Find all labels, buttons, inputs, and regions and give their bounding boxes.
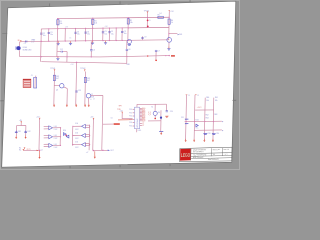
svg-text:Rev 1.0: Rev 1.0 [224, 149, 229, 151]
svg-text:C6: C6 [93, 49, 95, 51]
svg-text:R21: R21 [56, 76, 59, 78]
svg-text:C1: C1 [24, 43, 26, 45]
svg-text:C34: C34 [216, 133, 219, 135]
svg-text:BLINK LED: BLINK LED [23, 49, 32, 51]
svg-text:10u: 10u [77, 34, 80, 36]
svg-text:PB1: PB1 [129, 113, 132, 115]
svg-text:C3: C3 [124, 31, 126, 33]
svg-text:n17: n17 [86, 152, 89, 154]
svg-text:XT: XT [142, 123, 144, 125]
svg-text:PB4: PB4 [129, 122, 132, 124]
svg-text:LM32: LM32 [54, 129, 58, 131]
svg-text:10u: 10u [50, 34, 53, 36]
svg-text:C3: C3 [105, 31, 107, 33]
svg-text:10u: 10u [111, 33, 114, 35]
svg-text:10u: 10u [124, 33, 127, 35]
svg-text:10u: 10u [105, 33, 108, 35]
svg-text:TP100: TP100 [144, 10, 149, 12]
svg-text:PB0: PB0 [129, 109, 132, 111]
svg-text:R64: R64 [206, 118, 209, 120]
svg-text:Q1: Q1 [56, 90, 58, 92]
svg-text:▶5V0: ▶5V0 [178, 33, 183, 36]
svg-text:X1: X1 [151, 106, 153, 108]
svg-text:+5: +5 [90, 99, 92, 101]
svg-text:PB5: PB5 [129, 126, 132, 128]
svg-text:C5: C5 [69, 37, 71, 39]
svg-text:Q4: Q4 [41, 149, 43, 151]
svg-text:R5: R5 [158, 15, 160, 17]
svg-text:D20: D20 [63, 130, 66, 132]
svg-text:DK-7190 Billund: DK-7190 Billund [193, 151, 204, 153]
svg-text:LEGO: LEGO [181, 153, 191, 159]
svg-text:n21: n21 [110, 118, 113, 120]
svg-text:R60: R60 [206, 97, 209, 99]
svg-text:10u: 10u [87, 34, 90, 36]
svg-text:R61: R61 [215, 97, 218, 99]
svg-text:10k: 10k [206, 100, 209, 102]
svg-text:1k2: 1k2 [159, 13, 162, 15]
svg-text:4.5V: 4.5V [31, 42, 34, 44]
svg-text:C15: C15 [78, 90, 81, 92]
svg-text:10u: 10u [43, 35, 46, 37]
svg-text:ATMEGA48: ATMEGA48 [136, 119, 139, 128]
svg-text:PB2: PB2 [129, 116, 132, 118]
svg-text:C3: C3 [111, 31, 113, 33]
svg-text:R88: R88 [127, 64, 130, 66]
svg-text:4k7: 4k7 [87, 80, 90, 82]
svg-text:TP9: TP9 [119, 105, 122, 107]
svg-text:LM32: LM32 [75, 138, 79, 140]
svg-text:R62: R62 [206, 114, 209, 116]
svg-text:SCL: SCL [196, 128, 199, 130]
svg-text:1 / 1: 1 / 1 [225, 154, 228, 156]
svg-text:10k: 10k [215, 100, 218, 102]
svg-text:C3: C3 [50, 32, 52, 34]
svg-text:XT: XT [142, 125, 144, 127]
svg-text:5V: 5V [197, 95, 199, 97]
svg-text:4k7: 4k7 [56, 78, 59, 80]
svg-text:R22: R22 [87, 78, 90, 80]
svg-text:X_2: X_2 [148, 114, 151, 116]
svg-text:LM32: LM32 [75, 129, 79, 131]
svg-text:LM32: LM32 [75, 147, 79, 149]
svg-text:n3: n3 [93, 99, 95, 101]
svg-text:D12: D12 [28, 131, 31, 133]
svg-text:C20: C20 [170, 111, 173, 113]
svg-text:R63: R63 [214, 114, 217, 116]
svg-text:BC8: BC8 [91, 96, 94, 98]
svg-text:C7: C7 [158, 50, 160, 52]
svg-text:C3: C3 [87, 31, 89, 33]
svg-text:LM32: LM32 [54, 147, 58, 149]
svg-text:LM32: LM32 [54, 138, 58, 140]
svg-text:C33: C33 [208, 133, 211, 135]
svg-text:D11: D11 [18, 131, 21, 133]
svg-text:J1: J1 [31, 75, 33, 77]
svg-text:C3: C3 [77, 31, 79, 33]
svg-text:OUT: OUT [110, 150, 113, 152]
svg-text:10k: 10k [130, 22, 133, 24]
svg-text:C12: C12 [60, 49, 63, 51]
svg-text:5V: 5V [188, 95, 190, 97]
svg-text:C6: C6 [128, 49, 130, 51]
svg-text:C2: C2 [43, 33, 45, 35]
svg-text:10k: 10k [94, 23, 97, 25]
svg-text:OUT1: OUT1 [27, 149, 31, 151]
svg-text:1k: 1k [171, 22, 173, 24]
svg-text:10k: 10k [60, 23, 63, 25]
svg-text:C9: C9 [144, 37, 146, 39]
svg-text:C31: C31 [181, 117, 184, 119]
